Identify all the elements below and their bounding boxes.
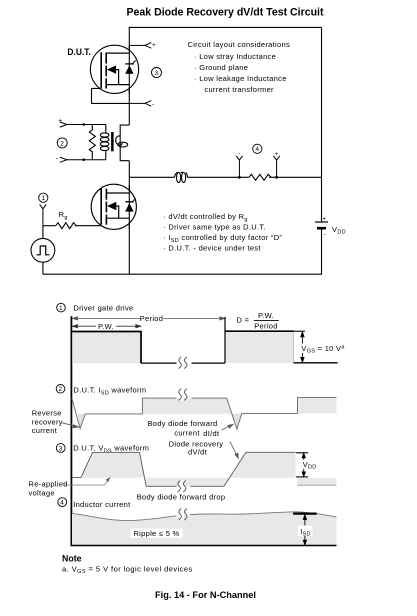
text: middle bullet list — [163, 212, 282, 253]
pw dimension arrow — [73, 325, 141, 328]
svg-text:Re-applied: Re-applied — [29, 479, 68, 488]
tick at pulse top — [294, 330, 305, 332]
waveform 2 outline — [72, 398, 143, 429]
svg-text:2: 2 — [60, 140, 64, 147]
gray fill dip 2 — [232, 414, 241, 429]
svg-text:·: · — [194, 63, 197, 72]
svg-text:Driver gate drive: Driver gate drive — [73, 303, 133, 312]
break white gap — [179, 389, 186, 401]
waveform axis line — [70, 316, 72, 545]
gray fill pulse 2 — [225, 332, 293, 363]
vdd dimension ticks — [296, 452, 308, 454]
gray fill right trapezoid — [229, 453, 295, 478]
text: circuit layout considerations — [188, 40, 291, 94]
vdd dimension arrow — [302, 453, 305, 476]
svg-text:Ripple ≤ 5 %: Ripple ≤ 5 % — [133, 529, 179, 538]
svg-text:·: · — [163, 244, 166, 253]
leader arrow to dip — [62, 423, 79, 428]
plus terminal node 2 — [60, 122, 106, 127]
gray fill low band — [144, 478, 229, 487]
svg-text:·: · — [163, 233, 166, 242]
break white gap — [178, 480, 185, 492]
wire transformer jog — [120, 125, 129, 161]
junction dots on sense rail — [238, 176, 241, 179]
svg-text:Body diode forward drop: Body diode forward drop — [137, 493, 226, 502]
break marks — [179, 509, 182, 521]
svg-text:current: current — [174, 429, 200, 438]
svg-text:recovery: recovery — [32, 417, 63, 426]
node 3 circled label — [56, 444, 65, 453]
node 1 probe terminal — [40, 204, 47, 225]
transformer core — [111, 132, 114, 151]
break marks — [179, 357, 182, 369]
waveform 1: driver gate drive — [57, 303, 346, 368]
break marks — [179, 389, 182, 401]
gray fill forward current band — [142, 398, 231, 413]
D.U.T. mosfet U1 — [90, 45, 138, 103]
svg-text:+: + — [275, 151, 279, 158]
driver mosfet Q2 — [91, 184, 136, 229]
svg-text:Peak Diode Recovery dV/dt Test: Peak Diode Recovery dV/dt Test Circuit — [127, 6, 324, 18]
junction dots — [82, 123, 85, 126]
svg-text:D =: D = — [237, 316, 250, 325]
gray fill dip 1 — [78, 414, 85, 429]
svg-text:·: · — [194, 52, 197, 61]
wire right rail upper — [321, 27, 323, 221]
svg-text:Note: Note — [62, 554, 82, 564]
svg-text:P.W.: P.W. — [258, 311, 274, 320]
svg-text:·: · — [163, 212, 166, 221]
svg-text:3: 3 — [59, 445, 63, 452]
svg-text:2: 2 — [59, 386, 63, 393]
waveform 3: DUT VDS — [29, 439, 337, 501]
svg-text:-: - — [56, 156, 59, 163]
svg-text:Fig. 14 - For N-Channel: Fig. 14 - For N-Channel — [155, 590, 256, 600]
wire bottom rail — [43, 273, 322, 275]
node 3 circled label — [152, 68, 162, 78]
svg-text:+: + — [58, 118, 62, 125]
wire pulse gen to ground rail — [42, 262, 44, 274]
svg-text:Driver same type as D.U.T.: Driver same type as D.U.T. — [168, 223, 265, 232]
node 1 circled label — [39, 193, 48, 202]
svg-text:·: · — [163, 223, 166, 232]
svg-text:D.U.T.: D.U.T. — [67, 47, 91, 57]
resistor R (current sense, node 4) — [249, 174, 271, 180]
body diode of driver — [125, 203, 133, 212]
pulse 1 outline — [72, 332, 141, 364]
node 4 minus probe terminal — [236, 156, 242, 178]
baseline with break — [141, 362, 177, 364]
svg-text:1: 1 — [41, 195, 45, 202]
wire left rail top (DUT drain branch) — [128, 27, 130, 125]
waveform 3 outline — [72, 452, 177, 486]
svg-text:-: - — [238, 150, 240, 157]
node 4 circled label — [253, 144, 262, 153]
resistor Rg — [56, 223, 77, 229]
node 4 circled label — [58, 498, 67, 507]
waveform 4: inductor current — [58, 498, 337, 546]
isd dimension arrow — [303, 515, 306, 545]
wire top rail — [129, 26, 322, 28]
minus probe terminal at DUT source — [129, 101, 151, 107]
D = PW/Period formula — [237, 311, 279, 330]
pulse generator — [31, 238, 55, 262]
plus probe terminal at DUT drain — [129, 43, 151, 49]
svg-text:Inductor current: Inductor current — [73, 500, 131, 509]
svg-text:+: + — [322, 216, 326, 223]
label ISD — [298, 526, 313, 537]
resistor (CT burden) — [89, 125, 95, 160]
battery VDD — [315, 222, 328, 228]
pulse 2 outline — [224, 317, 226, 363]
break marks — [178, 481, 181, 493]
wire gate drive — [43, 225, 56, 227]
svg-text:Body diode forward: Body diode forward — [147, 419, 217, 428]
svg-text:4: 4 — [255, 146, 259, 153]
svg-text:+: + — [152, 42, 156, 49]
node 2 circled label — [56, 385, 65, 394]
leader arrow to ramp — [230, 442, 238, 459]
wire gate-source short of D.U.T. — [92, 88, 130, 103]
svg-text:-: - — [324, 231, 326, 238]
inductor L (load) — [175, 172, 188, 182]
inductor current wave — [72, 513, 176, 520]
svg-text:Reverse: Reverse — [32, 409, 62, 418]
minus terminal node 2 — [60, 157, 106, 162]
wire right rail lower — [321, 229, 323, 274]
label ripple — [131, 529, 183, 539]
svg-text:current: current — [32, 426, 58, 435]
node 4 plus probe terminal — [273, 156, 279, 178]
wire left rail mid (to driver mosfet and bottom) — [128, 161, 130, 275]
svg-text:·: · — [194, 74, 197, 83]
svg-text:Ground plane: Ground plane — [199, 63, 248, 72]
wire inductor rail — [129, 176, 174, 178]
gray fill end band — [297, 478, 336, 485]
transformer primary winding — [100, 125, 109, 160]
svg-text:Period: Period — [140, 314, 163, 323]
node 1 circled label — [57, 303, 66, 312]
node 2 circled label — [57, 138, 67, 148]
svg-text:dI/dt: dI/dt — [203, 429, 220, 438]
svg-text:voltage: voltage — [29, 488, 55, 497]
svg-text:dV/dt: dV/dt — [188, 448, 208, 457]
gray fill under inductor current — [72, 512, 337, 545]
thick tick on wave top — [293, 512, 317, 514]
baseline right — [294, 362, 338, 364]
svg-text:4: 4 — [60, 500, 64, 507]
svg-text:P.W.: P.W. — [98, 322, 114, 331]
transformer secondary single turn — [116, 136, 128, 147]
period dimension arrow — [73, 317, 225, 320]
leader arrow re-applied — [63, 478, 110, 485]
label VDD — [301, 460, 317, 469]
wire pulse gen to gate — [42, 226, 44, 239]
svg-text:-: - — [152, 101, 154, 108]
break white gap — [179, 508, 186, 520]
body diode of D.U.T. — [125, 65, 133, 74]
svg-text:current transformer: current transformer — [204, 85, 274, 94]
svg-text:Low leakage Inductance: Low leakage Inductance — [199, 74, 287, 83]
gray fill right band — [298, 398, 337, 414]
svg-text:1: 1 — [59, 305, 63, 312]
baseline — [71, 545, 337, 547]
svg-text:3: 3 — [155, 70, 159, 77]
svg-text:Period: Period — [254, 321, 277, 330]
svg-text:D.U.T. - device under test: D.U.T. - device under test — [168, 244, 261, 253]
svg-text:Circuit layout considerations: Circuit layout considerations — [188, 40, 291, 49]
vgs dimension arrow — [301, 332, 304, 363]
gray fill left trapezoid — [81, 453, 144, 478]
waveform 2: DUT ISD — [32, 385, 337, 439]
label VGS = 10 V — [299, 344, 343, 354]
svg-text:Low stray Inductance: Low stray Inductance — [199, 52, 276, 61]
gray fill pulse 1 — [72, 332, 141, 363]
